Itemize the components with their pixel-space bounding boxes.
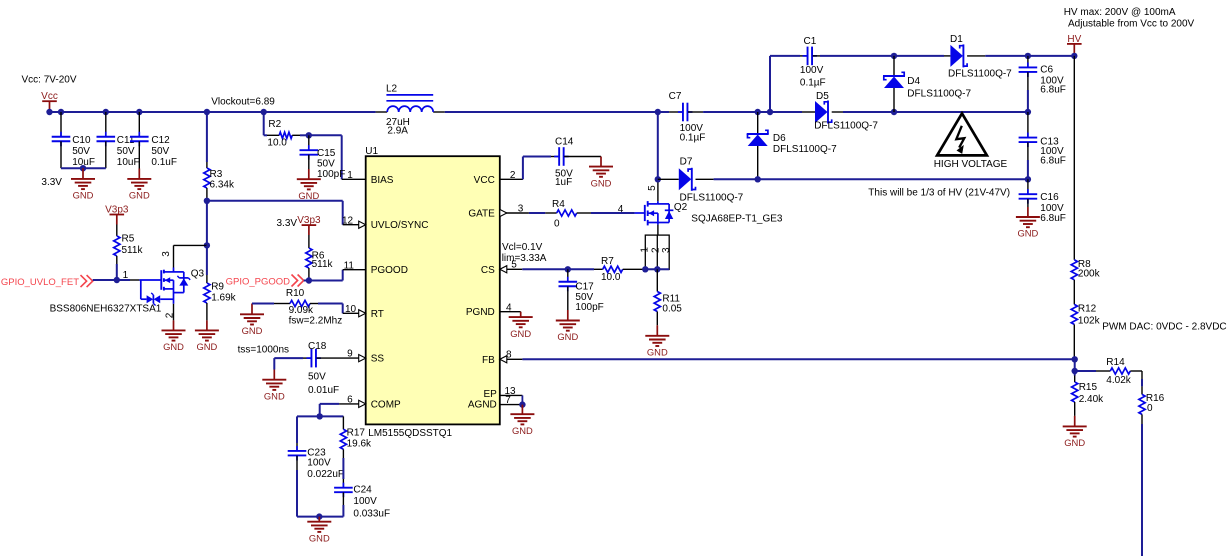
svg-text:GND: GND — [591, 177, 612, 188]
wire COMP node right — [320, 415, 344, 417]
svg-text:GND: GND — [1064, 437, 1085, 448]
svg-text:2: 2 — [510, 170, 516, 181]
ground R15 — [1074, 416, 1076, 427]
diode D6 — [757, 112, 759, 134]
svg-text:200k: 200k — [1078, 269, 1101, 280]
svg-text:0.05: 0.05 — [662, 304, 682, 315]
wire COMP bottom rail — [297, 516, 343, 518]
wire C7 to D5 — [703, 111, 802, 113]
svg-text:R3: R3 — [210, 169, 223, 180]
ground C16 — [1027, 207, 1029, 217]
capacitor C11 — [105, 112, 107, 137]
ground C17 — [567, 310, 569, 321]
svg-text:R12: R12 — [1078, 304, 1097, 315]
svg-text:1: 1 — [123, 270, 129, 281]
capacitor C23 — [296, 443, 298, 451]
resistor R2 — [267, 134, 279, 136]
svg-text:R2: R2 — [268, 119, 281, 130]
capacitor C12 — [138, 112, 140, 137]
junction C11 tap — [103, 109, 109, 115]
wire Q2 source lead — [657, 225, 659, 236]
junction C10 tap — [58, 109, 64, 115]
wire D5 to C6 rail — [843, 111, 1028, 113]
capacitor C10 — [60, 112, 62, 137]
svg-text:L2: L2 — [386, 83, 398, 94]
resistor R3 — [206, 112, 208, 162]
svg-text:Q3: Q3 — [191, 269, 205, 280]
wire R3 down to Q3 drain — [206, 201, 208, 246]
junction C13 bottom — [1025, 176, 1031, 182]
ground C14 — [600, 157, 602, 167]
ground C15 — [308, 169, 310, 179]
svg-text:3: 3 — [518, 204, 524, 215]
svg-text:C12: C12 — [151, 135, 170, 146]
wire FB long — [522, 358, 1074, 360]
svg-text:R14: R14 — [1106, 357, 1125, 368]
junction source node 1 — [642, 266, 648, 272]
svg-text:100V: 100V — [800, 65, 824, 76]
svg-text:GND: GND — [309, 532, 330, 543]
svg-text:D5: D5 — [816, 91, 829, 102]
pin 7 AGND — [500, 404, 523, 406]
svg-text:D1: D1 — [950, 34, 963, 45]
svg-text:C16: C16 — [1040, 192, 1059, 203]
junction C6 top — [1025, 53, 1031, 59]
svg-text:9.09k: 9.09k — [289, 305, 314, 316]
ground COMP — [318, 517, 320, 522]
capacitor C6 — [1027, 56, 1029, 67]
svg-text:PWM DAC: 0VDC - 2.8VDC: PWM DAC: 0VDC - 2.8VDC — [1102, 322, 1226, 333]
svg-text:0.1µF: 0.1µF — [680, 133, 706, 144]
svg-text:19.6k: 19.6k — [347, 438, 372, 449]
wire R2 to C15 node — [300, 134, 309, 136]
ground R9 — [206, 320, 208, 330]
junction R3 tap — [204, 109, 210, 115]
wire R3 to pin12 — [207, 200, 343, 202]
svg-text:GPIO_UVLO_FET: GPIO_UVLO_FET — [1, 277, 79, 288]
svg-text:C24: C24 — [353, 484, 372, 495]
svg-text:7: 7 — [505, 395, 511, 406]
pin 2 VCC — [500, 178, 523, 180]
resistor R4 — [545, 212, 556, 214]
resistor R12 — [1071, 304, 1077, 324]
svg-text:COMP: COMP — [371, 399, 401, 410]
wire R2 branch — [263, 112, 265, 135]
wire COMP branch — [320, 403, 339, 405]
ground Q3 source — [173, 320, 175, 330]
wire C15 node to BIAS — [309, 134, 342, 136]
ground R10 — [251, 304, 253, 315]
svg-text:SS: SS — [371, 354, 385, 365]
pin 9 SS — [338, 357, 366, 359]
capacitor C15 — [308, 135, 310, 150]
pin 5 CS — [507, 268, 522, 270]
svg-text:GND: GND — [510, 328, 531, 339]
svg-text:0: 0 — [1147, 403, 1153, 414]
svg-text:9: 9 — [347, 349, 353, 360]
svg-text:100V: 100V — [307, 458, 331, 469]
junction D4 top — [891, 53, 897, 59]
svg-text:10.0: 10.0 — [267, 138, 287, 149]
capacitor C16 — [1027, 179, 1029, 194]
svg-text:Vcl=0.1V: Vcl=0.1V — [502, 242, 543, 253]
wire Q2 drain lead — [657, 179, 659, 201]
pin 11 PGOOD — [343, 269, 366, 271]
wire EP to AGND — [521, 395, 523, 404]
svg-text:4: 4 — [506, 302, 512, 313]
junction SW bottom — [655, 176, 661, 182]
svg-text:4.02k: 4.02k — [1106, 375, 1131, 386]
pin 8 FB — [507, 358, 522, 360]
svg-text:1uF: 1uF — [555, 177, 572, 188]
svg-text:RT: RT — [371, 309, 384, 320]
svg-text:0.1uF: 0.1uF — [151, 157, 177, 168]
svg-text:6.8uF: 6.8uF — [1040, 85, 1066, 96]
svg-text:3: 3 — [161, 251, 172, 257]
svg-text:3: 3 — [661, 247, 672, 253]
svg-text:1: 1 — [639, 247, 650, 253]
svg-text:This will be 1/3 of HV (21V-47: This will be 1/3 of HV (21V-47V) — [868, 188, 1010, 199]
svg-text:GND: GND — [647, 347, 668, 358]
junction HV — [1071, 53, 1077, 59]
junction AGND — [519, 401, 525, 407]
ground input caps — [82, 168, 84, 179]
wire GPIO_PGOOD to PGOOD — [304, 280, 343, 282]
svg-text:100pF: 100pF — [317, 169, 345, 180]
svg-text:4: 4 — [618, 204, 624, 215]
svg-text:100pF: 100pF — [575, 302, 603, 313]
svg-text:GND: GND — [242, 325, 263, 336]
svg-text:GND: GND — [298, 190, 319, 201]
svg-text:0.01uF: 0.01uF — [308, 385, 339, 396]
svg-text:DFLS1100Q-7: DFLS1100Q-7 — [814, 121, 878, 132]
svg-text:C6: C6 — [1040, 65, 1053, 76]
junction FB node — [1072, 356, 1078, 362]
svg-text:102k: 102k — [1078, 315, 1101, 326]
junction C15 node — [306, 132, 312, 138]
svg-text:R5: R5 — [122, 234, 135, 245]
svg-text:6: 6 — [347, 395, 353, 406]
svg-text:HV max: 200V @ 100mA: HV max: 200V @ 100mA — [1064, 7, 1176, 18]
svg-text:C15: C15 — [317, 148, 336, 159]
svg-text:C18: C18 — [308, 341, 327, 352]
capacitor C13 — [1027, 112, 1029, 137]
wire R14 corner — [1141, 371, 1143, 379]
wire SW down — [657, 112, 659, 179]
svg-text:3.3V: 3.3V — [41, 177, 62, 188]
pin 10 RT — [343, 312, 366, 314]
capacitor C24 — [342, 479, 344, 488]
source pins box Q2 — [645, 235, 669, 269]
pin 1 BIAS — [342, 178, 366, 180]
wire R4 to Q2 gate — [591, 212, 635, 214]
svg-text:CS: CS — [481, 265, 495, 276]
wire R7 to source node — [645, 268, 669, 270]
svg-text:GND: GND — [557, 331, 578, 342]
ground AGND — [521, 405, 523, 415]
svg-text:R10: R10 — [286, 288, 305, 299]
junction R3 bottom — [204, 198, 210, 204]
junction source node 2 — [654, 266, 660, 272]
svg-text:2.9A: 2.9A — [387, 126, 408, 137]
svg-text:C1: C1 — [804, 36, 817, 47]
svg-text:UVLO/SYNC: UVLO/SYNC — [371, 220, 429, 231]
junction D4 bottom — [891, 109, 897, 115]
svg-text:0.022uF: 0.022uF — [307, 469, 344, 480]
svg-text:DFLS1100Q-7: DFLS1100Q-7 — [948, 69, 1012, 80]
capacitor C1 — [800, 55, 807, 57]
wire Vcc rail — [50, 111, 376, 113]
diode D7 — [658, 178, 679, 180]
transistor Q2 — [635, 212, 645, 214]
wire C10-C11 bottom rail — [61, 167, 106, 169]
svg-text:C17: C17 — [575, 281, 594, 292]
wire D7 rail — [714, 178, 1028, 180]
svg-text:DFLS1100Q-7: DFLS1100Q-7 — [773, 144, 837, 155]
resistor R6 — [308, 235, 310, 248]
svg-text:10uF: 10uF — [117, 157, 140, 168]
junction input gnd — [80, 165, 86, 171]
svg-text:GPIO_PGOOD: GPIO_PGOOD — [226, 277, 291, 288]
wire CS to C17 node — [522, 268, 568, 270]
svg-text:2: 2 — [650, 247, 661, 253]
svg-text:C7: C7 — [669, 91, 682, 102]
svg-text:R15: R15 — [1079, 382, 1098, 393]
svg-text:100V: 100V — [353, 496, 377, 507]
junction COMP node — [317, 413, 323, 419]
svg-text:12: 12 — [342, 215, 354, 226]
svg-text:C14: C14 — [555, 137, 574, 148]
svg-text:5: 5 — [647, 185, 658, 191]
pin 4 PGND — [500, 311, 521, 313]
svg-text:AGND: AGND — [468, 399, 497, 410]
diode D4 — [893, 56, 895, 76]
pin 13 EP — [500, 394, 523, 396]
junction R5 gate node — [114, 277, 120, 283]
junction Vcc stem — [46, 109, 52, 115]
resistor R16 — [1139, 394, 1145, 414]
svg-text:Adjustable from Vcc to 200V: Adjustable from Vcc to 200V — [1068, 19, 1195, 30]
wire GPIO_UVLO_FET to gate — [93, 279, 130, 281]
inductor L2 — [376, 111, 388, 113]
wire SW rail after L2 — [445, 111, 658, 113]
svg-text:0.033uF: 0.033uF — [353, 508, 390, 519]
wire C1 to D1 — [820, 55, 944, 57]
svg-text:LM5155QDSSTQ1: LM5155QDSSTQ1 — [368, 428, 452, 439]
junction R2 tap — [261, 109, 267, 115]
resistor R17 — [342, 416, 344, 429]
svg-text:1.69k: 1.69k — [211, 293, 236, 304]
resistor R10 — [252, 303, 274, 305]
resistor R5 — [116, 225, 118, 236]
transistor Q3 — [139, 279, 161, 281]
svg-text:Vcc: 7V-20V: Vcc: 7V-20V — [22, 75, 77, 86]
svg-text:6.8uF: 6.8uF — [1040, 213, 1066, 224]
capacitor C18 — [303, 357, 311, 359]
junction R14 node — [1072, 368, 1078, 374]
junction Q3 drain tap — [204, 242, 210, 248]
junction C1 riser — [767, 109, 773, 115]
svg-text:DFLS1100Q-7: DFLS1100Q-7 — [680, 193, 744, 204]
resistor R11 — [656, 269, 658, 291]
svg-text:1: 1 — [347, 170, 353, 181]
svg-text:10.0: 10.0 — [601, 272, 621, 283]
wire R16 down — [1141, 414, 1143, 424]
junction SW top — [655, 109, 661, 115]
wire R10 to RT — [318, 303, 343, 305]
capacitor C7 — [658, 111, 669, 113]
svg-text:GATE: GATE — [468, 209, 495, 220]
pin 6 COMP — [339, 403, 366, 405]
ground C18 — [273, 370, 275, 380]
ground C12 — [138, 169, 140, 179]
ground R11 — [656, 325, 658, 336]
svg-text:GND: GND — [264, 390, 285, 401]
wire GATE to R4 — [529, 212, 545, 214]
ground PGND — [520, 312, 522, 317]
svg-text:tss=1000ns: tss=1000ns — [238, 345, 289, 356]
svg-text:PGND: PGND — [466, 307, 495, 318]
resistor R8 — [1071, 260, 1077, 280]
svg-text:fsw=2.2Mhz: fsw=2.2Mhz — [289, 316, 343, 327]
svg-text:R4: R4 — [552, 199, 565, 210]
wire C17 node to R7 — [568, 268, 594, 270]
svg-text:GND: GND — [196, 341, 217, 352]
svg-text:R17: R17 — [347, 428, 366, 439]
svg-text:Vlockout=6.89: Vlockout=6.89 — [211, 97, 275, 108]
svg-text:D6: D6 — [773, 133, 786, 144]
svg-text:lim=3.33A: lim=3.33A — [502, 253, 547, 264]
capacitor C17 — [567, 269, 569, 281]
svg-text:R7: R7 — [601, 256, 614, 267]
svg-text:511k: 511k — [312, 259, 334, 270]
svg-text:BSS806NEH6327XTSA1: BSS806NEH6327XTSA1 — [50, 304, 162, 315]
svg-text:R9: R9 — [211, 282, 224, 293]
svg-text:GND: GND — [512, 425, 533, 436]
wire Q3 source — [173, 304, 175, 321]
svg-text:0.1µF: 0.1µF — [800, 78, 826, 89]
junction C17 node — [565, 266, 571, 272]
svg-text:GND: GND — [129, 190, 150, 201]
svg-text:GND: GND — [163, 341, 184, 352]
svg-text:50V: 50V — [317, 158, 335, 169]
svg-text:DFLS1100Q-7: DFLS1100Q-7 — [907, 89, 971, 100]
junction D6 bottom — [755, 176, 761, 182]
wire R12 to FB node — [1073, 324, 1075, 359]
high voltage warning symbol — [937, 113, 987, 155]
wire Q3 drain — [173, 245, 175, 267]
junction R6 node — [306, 277, 312, 283]
svg-text:GND: GND — [73, 190, 94, 201]
resistor R7 — [594, 268, 603, 270]
wire R8 to R12 — [1073, 280, 1075, 305]
resistor R14 — [1075, 370, 1096, 372]
svg-text:U1: U1 — [365, 146, 378, 157]
svg-text:PGOOD: PGOOD — [371, 265, 408, 276]
svg-text:D4: D4 — [907, 76, 920, 87]
svg-text:3.3V: 3.3V — [277, 218, 298, 229]
svg-text:6.8uF: 6.8uF — [1040, 155, 1066, 166]
svg-text:VCC: VCC — [474, 175, 495, 186]
svg-text:50V: 50V — [117, 146, 135, 157]
wire HV down to R8 — [1073, 56, 1075, 260]
junction D6 top — [755, 109, 761, 115]
junction C12 tap — [136, 109, 142, 115]
wire FB node down — [1074, 359, 1076, 371]
pin 12 UVLO/SYNC — [343, 224, 366, 226]
svg-text:D7: D7 — [680, 157, 693, 168]
svg-text:HIGH VOLTAGE: HIGH VOLTAGE — [934, 159, 1008, 170]
svg-text:0: 0 — [554, 219, 560, 230]
junction C6 bottom — [1025, 109, 1031, 115]
svg-text:2.40k: 2.40k — [1079, 394, 1104, 405]
wire C1 riser up — [769, 56, 771, 112]
pin 3 GATE — [500, 212, 529, 214]
diode D5 — [802, 111, 815, 113]
wire COMP node left — [297, 415, 320, 417]
svg-text:Q2: Q2 — [674, 202, 688, 213]
svg-text:50V: 50V — [308, 372, 326, 383]
resistor R15 — [1074, 371, 1076, 376]
wire C18 gnd branch — [273, 358, 275, 369]
junction COMP gnd — [316, 513, 322, 519]
resistor R9 — [206, 245, 208, 275]
svg-text:C10: C10 — [72, 135, 91, 146]
wire D1 to HV — [985, 55, 1074, 57]
svg-text:SQJA68EP-T1_GE3: SQJA68EP-T1_GE3 — [691, 213, 783, 224]
svg-text:50V: 50V — [151, 146, 169, 157]
svg-text:511k: 511k — [122, 245, 144, 256]
svg-text:FB: FB — [482, 355, 495, 366]
svg-text:6.34k: 6.34k — [210, 180, 235, 191]
svg-text:11: 11 — [344, 260, 355, 271]
op-amp U1 body — [366, 156, 500, 424]
capacitor C14 — [551, 156, 559, 158]
wire VCC to C14 — [522, 157, 524, 180]
svg-text:10: 10 — [345, 304, 357, 315]
svg-text:8: 8 — [506, 349, 512, 360]
diode D1 — [944, 55, 950, 57]
svg-text:GND: GND — [1017, 228, 1038, 239]
svg-text:50V: 50V — [72, 146, 90, 157]
svg-text:BIAS: BIAS — [371, 175, 394, 186]
